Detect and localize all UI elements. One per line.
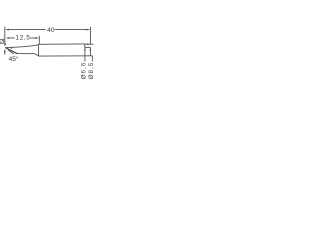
extension line right (40 dim) [89,27,91,45]
svg-text:40: 40 [47,27,55,34]
step down to stub [84,44,86,48]
tip dia lower arrow shaft [4,50,6,55]
chisel face line [6,48,18,54]
45 deg leader line [8,50,14,54]
dia 6,6 dimension line [84,48,86,62]
dimension line 12,5 left shaft [9,37,14,39]
45 leader arrowhead [11,47,13,49]
extension line 12,5 right [38,36,40,45]
tip outline top edge [5,44,85,48]
svg-text:Ø6,6: Ø6,6 [80,62,87,80]
stub end cap [89,47,91,55]
arrow 12,5 right [35,37,39,39]
arrow 40 left [5,29,9,31]
svg-text:Ø,: Ø, [0,39,6,46]
arrow tip dia down [4,44,6,47]
svg-text:Ø8,5: Ø8,5 [88,62,95,80]
dimension line 40 right segment [55,29,88,31]
arrow stub cap up [90,48,92,51]
stub top edge [85,46,91,48]
arrow dia 6,6 up [84,48,86,51]
bottom edge [5,48,92,56]
top extension line right (dia 8,5) [85,43,94,45]
extension line left (tip) [4,27,6,45]
joint line tip/body [38,44,40,56]
stub length arrow right [87,43,90,45]
dimension line 12,5 right shaft [30,37,36,39]
dia 8,5 dimension line [91,56,93,62]
arrow 40 right [86,29,90,31]
dimension line 40 left segment [8,29,45,31]
arrow tip dia up [4,49,6,52]
svg-text:45°: 45° [9,55,19,63]
arrow 12,5 left [6,37,10,39]
svg-text:12,5: 12,5 [15,35,30,42]
